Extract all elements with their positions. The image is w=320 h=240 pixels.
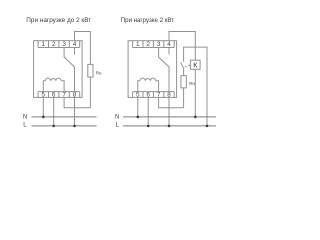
N bus right [123,116,216,118]
wire K to N [194,69,196,117]
coil U2 [138,78,159,91]
svg-text:4: 4 [167,41,171,48]
junction 5-N right [137,116,140,119]
svg-text:1: 1 [136,41,140,48]
L bus left [32,125,97,127]
terminal row bottom U1 (5,6,7,8) [38,92,80,98]
wire Rn to elbow [89,77,91,108]
svg-text:4: 4 [73,41,77,48]
relay U2 body [128,41,177,98]
junction 8-L [73,125,76,128]
wire Rn to elbow right [183,88,185,108]
link dashed K [185,65,191,67]
wire elbow terminal7 right [159,97,184,107]
svg-text:Rн: Rн [189,81,195,86]
junction 5-N [42,116,45,119]
svg-text:3: 3 [157,41,161,48]
junction 8-L right [168,125,171,128]
wire terminal5 to N [42,97,44,117]
terminal row bottom U2 (5,6,7,8) [133,92,175,98]
junction K-N [194,116,197,119]
load Rn left [88,64,93,77]
contact U1 (3-8, NO stub 4) [64,48,74,92]
svg-text:N: N [23,114,27,120]
wire elbow terminal7 [64,97,90,107]
wire terminal8 to L [74,97,76,126]
svg-text:2: 2 [146,41,150,48]
svg-text:L: L [115,123,119,129]
wire terminal5 to N right [137,97,139,117]
load Rn right [181,76,186,88]
svg-text:3: 3 [62,41,66,48]
svg-text:При нагрузке 2 кВт: При нагрузке 2 кВт [121,17,174,24]
contact K blade [181,62,184,68]
wire terminal4 loop right [169,32,195,61]
terminal row top U1 (1,2,3,4) [38,41,80,48]
L bus right [123,125,216,127]
svg-text:1: 1 [42,41,46,48]
svg-text:L: L [23,123,27,129]
coil U1 [43,78,64,91]
terminal row top U2 (1,2,3,4) [133,41,175,48]
svg-text:N: N [115,114,119,120]
wire terminal8 to L right [168,97,170,126]
svg-text:При нагрузке до 2 кВт: При нагрузке до 2 кВт [26,17,91,24]
svg-text:2: 2 [52,41,56,48]
wire terminal4 loop [75,32,91,65]
wire contact to Rn [183,68,185,75]
relay U1 body [34,41,83,98]
N bus left [32,116,97,118]
wire bracket branch [184,47,207,126]
contactor coil K box [190,60,200,69]
svg-text:К: К [193,62,198,69]
junction 6-L right [147,125,150,128]
contact U2 (3-8, NO stub 4) [159,48,169,92]
wire terminal6 to L [53,97,55,126]
svg-text:Rн: Rн [96,70,102,75]
junction 6-L [52,125,55,128]
junction bracket-L [206,125,209,128]
wire terminal6 to L right [147,97,149,126]
